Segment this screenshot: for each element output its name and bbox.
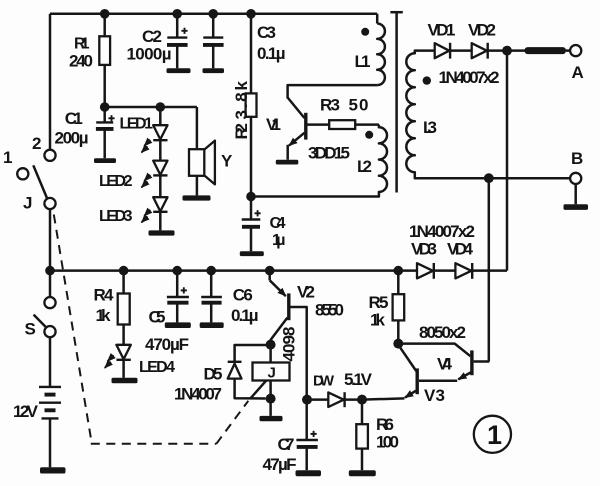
svg-text:VD4: VD4 <box>447 240 474 259</box>
svg-text:V3: V3 <box>424 386 445 405</box>
svg-text:8550: 8550 <box>315 301 344 320</box>
node L2 polarity dot <box>365 131 373 139</box>
node L3 polarity dot <box>423 76 431 84</box>
ground below C2 <box>167 68 191 73</box>
wire relay to ground <box>269 399 272 416</box>
svg-text:DW: DW <box>313 373 335 390</box>
svg-text:1N4007x2: 1N4007x2 <box>439 68 500 87</box>
svg-text:LED1: LED1 <box>120 116 154 133</box>
node bus R5 junction <box>394 266 404 276</box>
capacitor C5 <box>176 271 179 297</box>
node bus C5 junction <box>172 266 182 276</box>
svg-text:V1: V1 <box>266 115 281 134</box>
svg-text:LED3: LED3 <box>99 208 133 225</box>
node zener right junction <box>357 395 367 405</box>
transistor V2 <box>268 271 271 281</box>
svg-text:1N4007x2: 1N4007x2 <box>409 222 475 241</box>
resistor R6 <box>361 400 364 425</box>
svg-text:V4: V4 <box>437 355 453 374</box>
diode VD4 <box>455 263 471 278</box>
svg-text:47µF: 47µF <box>263 455 297 474</box>
svg-text:S: S <box>25 320 36 339</box>
svg-text:R2: R2 <box>232 123 251 140</box>
terminal B <box>570 173 581 184</box>
svg-text:1µ: 1µ <box>272 232 286 249</box>
node C4 junction <box>246 192 256 202</box>
ground below C1 <box>94 158 116 163</box>
svg-text:50: 50 <box>349 96 369 115</box>
node bus-switch junction <box>45 266 55 276</box>
svg-text:470µF: 470µF <box>145 335 189 354</box>
svg-text:240: 240 <box>69 52 93 71</box>
wire lower supply bus <box>50 269 417 272</box>
svg-text:4098: 4098 <box>280 327 299 362</box>
diode VD1 <box>435 43 450 58</box>
node L3 bottom junction <box>484 173 494 183</box>
svg-text:C6: C6 <box>233 286 253 305</box>
svg-text:C1: C1 <box>65 109 83 128</box>
svg-text:2: 2 <box>32 134 41 153</box>
relay armature <box>251 381 267 399</box>
svg-text:1000µ: 1000µ <box>127 45 172 64</box>
svg-text:3DD15: 3DD15 <box>308 144 350 163</box>
capacitor C3 <box>212 14 215 38</box>
svg-text:R5: R5 <box>369 293 389 312</box>
wire VD2 to terminal A <box>488 49 526 52</box>
LED1 <box>159 107 162 125</box>
ground below C7 <box>296 470 322 476</box>
wire VD3 to VD4 <box>434 269 456 272</box>
node top bus R1 junction <box>100 9 110 19</box>
transistor V3 <box>416 368 419 394</box>
capacitor C1 <box>103 107 106 122</box>
terminal 1 <box>17 168 28 179</box>
node top bus C3 junction <box>208 9 218 19</box>
ground below C5 <box>165 322 191 328</box>
diode VD3 <box>417 263 433 278</box>
node zener left junction <box>302 395 312 405</box>
svg-text:100: 100 <box>376 433 399 452</box>
svg-text:1k: 1k <box>370 311 386 330</box>
switch S <box>49 271 52 298</box>
switch J pole <box>44 198 55 209</box>
capacitor C4 <box>250 197 253 220</box>
svg-text:C2: C2 <box>142 27 162 46</box>
node rectifier output junction <box>502 46 512 56</box>
ground below LED4 <box>112 378 138 383</box>
wire L3 bottom to V4 collector <box>488 178 491 361</box>
svg-text:L3: L3 <box>423 118 437 137</box>
resistor R2 <box>250 14 253 94</box>
transistor V1 <box>304 113 307 140</box>
svg-text:12V: 12V <box>13 402 39 421</box>
battery 12V <box>49 337 52 387</box>
svg-text:R4: R4 <box>94 286 115 305</box>
figure number badge 1 <box>474 416 511 453</box>
ground below relay <box>260 416 283 421</box>
inductor L2 <box>251 125 387 197</box>
svg-text:LED4: LED4 <box>139 359 175 376</box>
svg-text:VD3: VD3 <box>411 240 437 259</box>
svg-text:R3: R3 <box>320 96 340 115</box>
node LED1 junction <box>156 102 166 112</box>
inductor L3 <box>406 51 570 179</box>
dashed mechanical link from switch J <box>54 215 91 438</box>
svg-text:1N4007: 1N4007 <box>174 385 222 404</box>
svg-text:1: 1 <box>3 148 12 167</box>
wire VD1 to VD2 <box>450 49 471 52</box>
svg-text:C3: C3 <box>257 23 276 42</box>
capacitor C7 <box>305 400 308 440</box>
LED4 <box>116 345 130 359</box>
resistor R3 <box>329 120 355 129</box>
svg-text:0.1µ: 0.1µ <box>257 44 286 63</box>
svg-text:VD2: VD2 <box>468 21 496 40</box>
relay coil J <box>269 345 272 363</box>
resistor R4 <box>122 271 125 294</box>
svg-text:C5: C5 <box>149 308 166 327</box>
ground below C4 <box>240 251 264 256</box>
capacitor C2 <box>176 14 179 38</box>
terminal A <box>570 45 581 56</box>
ground below C3 <box>203 68 225 73</box>
wire VD4 to rectifier output <box>472 269 507 272</box>
svg-text:LED2: LED2 <box>99 173 133 190</box>
wire rectifier output down <box>506 51 509 271</box>
node C1 junction <box>100 102 110 112</box>
ground below LED3 <box>149 230 175 235</box>
wire V3 emitter to zener node <box>362 398 405 399</box>
svg-text:A: A <box>572 63 584 82</box>
node L1 polarity dot <box>361 28 369 36</box>
svg-text:8050x2: 8050x2 <box>419 323 466 342</box>
node bus C6 junction <box>206 266 216 276</box>
svg-text:J: J <box>23 194 32 213</box>
svg-text:5.1V: 5.1V <box>344 370 373 389</box>
svg-text:R6: R6 <box>376 415 394 434</box>
svg-text:J: J <box>268 365 276 382</box>
svg-text:L1: L1 <box>355 52 371 71</box>
node top bus R2 junction <box>246 9 256 19</box>
svg-text:C4: C4 <box>270 215 286 232</box>
resistor R5 <box>397 271 400 295</box>
svg-text:V2: V2 <box>297 283 315 302</box>
svg-text:D5: D5 <box>204 365 223 384</box>
svg-text:B: B <box>571 149 583 168</box>
terminal 2 <box>44 150 55 161</box>
wire pole to lower bus <box>49 209 52 271</box>
svg-text:1k: 1k <box>96 306 112 325</box>
ferrite bead to A <box>525 47 567 54</box>
LED2 <box>153 161 167 175</box>
svg-text:200µ: 200µ <box>55 129 89 148</box>
diode D5 <box>235 345 271 362</box>
svg-text:VD1: VD1 <box>428 21 456 40</box>
zener diode DW <box>307 398 328 401</box>
wire L1 top feed <box>376 14 379 24</box>
wire mid rail y107 <box>105 106 197 109</box>
transformer core <box>395 12 398 192</box>
svg-text:Y: Y <box>221 152 233 171</box>
LED3 <box>153 197 167 211</box>
ground below C6 <box>200 322 224 328</box>
resistor R1 <box>103 14 106 37</box>
ground below battery <box>40 467 66 473</box>
speaker Y <box>196 107 199 149</box>
wire V4 emitter to V3 base <box>419 380 457 383</box>
node relay top junction <box>266 340 276 350</box>
capacitor C6 <box>210 271 213 297</box>
switch J lever <box>33 165 47 198</box>
wire L1 bottom to V1 collector <box>288 85 378 98</box>
node R5 bottom junction <box>393 339 403 349</box>
diode VD2 <box>472 43 487 58</box>
inductor L1 <box>377 24 385 86</box>
ground below V1 emitter <box>276 160 299 165</box>
svg-text:C7: C7 <box>278 435 295 454</box>
svg-text:1: 1 <box>487 420 502 450</box>
svg-text:L2: L2 <box>357 157 372 176</box>
svg-text:R1: R1 <box>74 36 90 53</box>
node bus V2 junction <box>265 266 275 276</box>
node relay bottom junction <box>266 394 276 404</box>
wire left drop to terminal 2 <box>49 14 52 150</box>
ground below B <box>564 204 589 210</box>
wire B to ground <box>574 184 577 204</box>
node bus R4 junction <box>119 266 129 276</box>
svg-text:0.1µ: 0.1µ <box>231 306 259 325</box>
transistor V4 <box>398 344 470 357</box>
ground below R6 <box>349 470 376 476</box>
svg-text:3.8k: 3.8k <box>232 80 251 119</box>
wire top supply bus <box>50 13 377 16</box>
node top bus C2 junction <box>172 9 182 19</box>
